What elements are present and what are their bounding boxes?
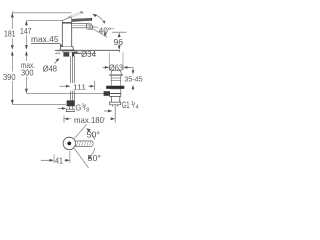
svg-text:300: 300 xyxy=(21,67,34,77)
G3/8 fitting nut xyxy=(67,100,75,106)
cap joint band xyxy=(62,22,71,23)
max180 left extension tick xyxy=(63,116,65,123)
dimension 35-45 xyxy=(125,67,133,70)
waste tails xyxy=(113,105,118,107)
svg-text:max.180: max.180 xyxy=(74,115,104,125)
spout mid line xyxy=(72,24,87,26)
waste tee body xyxy=(110,89,120,93)
dimension 111 xyxy=(60,85,67,87)
top view center dot xyxy=(67,142,71,146)
waste foot xyxy=(110,102,121,105)
svg-text:8: 8 xyxy=(86,108,89,114)
diameter 63 extension lines xyxy=(109,53,123,71)
svg-text:max.45: max.45 xyxy=(31,34,59,44)
lever swing arc xyxy=(94,14,104,22)
lever ghost position xyxy=(68,12,82,19)
fitting foot xyxy=(66,109,74,111)
max180 dimension line xyxy=(69,118,72,120)
G3/8 pointer arrow xyxy=(58,107,65,109)
svg-text:147: 147 xyxy=(20,26,32,36)
faucet body xyxy=(62,23,71,47)
faucet base xyxy=(60,47,74,50)
extension line max300 bottom / popup rod line xyxy=(26,92,104,94)
max180 right extension tick xyxy=(114,106,116,123)
svg-text:Ø34: Ø34 xyxy=(81,49,96,59)
top view spout bar xyxy=(75,141,93,146)
swivel arc upper with arrow xyxy=(88,130,95,140)
waste band2 xyxy=(110,94,121,97)
svg-text:50°: 50° xyxy=(87,129,101,139)
waste shank xyxy=(111,96,119,102)
lever handle xyxy=(72,18,91,21)
svg-text:111: 111 xyxy=(73,83,86,92)
svg-text:G: G xyxy=(75,102,81,112)
deck underside left xyxy=(55,53,60,55)
svg-text:390: 390 xyxy=(3,72,16,82)
mounting nut below deck xyxy=(62,51,75,52)
supply pipe xyxy=(71,57,75,83)
96 extension line xyxy=(112,31,126,33)
dimension 147 / max300 arrows xyxy=(25,21,28,94)
lever end cap xyxy=(91,18,92,21)
svg-text:G1: G1 xyxy=(122,100,130,110)
svg-text:Ø48: Ø48 xyxy=(43,63,58,73)
svg-text:40°: 40° xyxy=(99,25,112,35)
extension line bottom 390 xyxy=(12,104,66,106)
dimension 181 arrows xyxy=(11,13,14,105)
aerator tip xyxy=(87,24,92,30)
waste nut dark xyxy=(106,86,124,89)
extension line (147 to spout top) xyxy=(26,20,62,22)
spout bar hatch xyxy=(76,141,91,146)
svg-text:41: 41 xyxy=(55,156,63,166)
dimension 181 vertical line xyxy=(11,11,13,104)
spray angle line lower xyxy=(92,29,107,38)
fitting stub xyxy=(69,106,72,109)
dimension 147 vertical line xyxy=(25,21,27,93)
top view circle (body) xyxy=(63,137,75,149)
diameter 63 dimension arrows xyxy=(103,66,108,68)
extension line top (181 to lever top) xyxy=(12,12,71,14)
deck underside right xyxy=(74,53,96,55)
deck line xyxy=(55,49,119,51)
svg-text:35-45: 35-45 xyxy=(124,75,143,84)
svg-text:4: 4 xyxy=(136,105,139,111)
41 dimension xyxy=(53,155,55,164)
waste plug cap xyxy=(111,70,122,75)
svg-text:50°: 50° xyxy=(88,153,102,163)
cartridge cap xyxy=(62,17,71,23)
spray angle line upper xyxy=(93,27,115,29)
rod coupling dark box xyxy=(104,91,110,96)
spout xyxy=(72,24,87,28)
right pointer arrow to waste pipe xyxy=(104,110,110,112)
svg-text:181: 181 xyxy=(4,29,16,39)
waste body xyxy=(111,76,121,86)
96 dimension line xyxy=(118,36,120,47)
swivel arc lower with arrow xyxy=(89,148,95,158)
swivel line upper xyxy=(74,125,86,139)
waste flange xyxy=(109,74,123,76)
swivel line lower xyxy=(74,148,88,167)
svg-text:96: 96 xyxy=(114,37,124,47)
